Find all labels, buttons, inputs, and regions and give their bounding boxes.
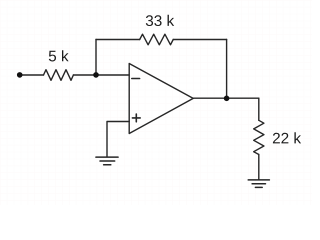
resistor R2 33 k (feedback, horizontal) [140, 34, 174, 45]
ground symbol (non-inverting input) [96, 157, 118, 165]
wire: R1 to inverting input of op-amp [73, 74, 129, 76]
wire: junction up to feedback [95, 40, 97, 76]
input terminal node [17, 72, 23, 78]
ground symbol (output load) [248, 180, 269, 188]
node: inverting input junction [93, 72, 99, 78]
node: output junction [224, 96, 230, 102]
wire: input terminal to R1 [20, 74, 44, 76]
op-amp plus symbol [132, 114, 140, 122]
wire: down to R3 [258, 98, 260, 120]
wire: op-amp output to right corner [193, 97, 259, 99]
label: 5 k [49, 50, 69, 61]
op-amp minus symbol [132, 78, 140, 80]
wire: feedback top right segment [173, 39, 226, 41]
op-amp U1 triangle [129, 64, 193, 134]
wire: feedback down to output node [226, 40, 228, 99]
wire: R3 to ground [258, 155, 260, 180]
resistor R3 22 k (vertical) [254, 120, 264, 154]
label: 33 k [146, 15, 174, 26]
resistor R1 5 k (horizontal) [44, 70, 74, 81]
wire: feedback top left segment [96, 39, 140, 41]
label: 22 k [273, 132, 301, 143]
wire: non-inverting input to ground [107, 122, 129, 157]
